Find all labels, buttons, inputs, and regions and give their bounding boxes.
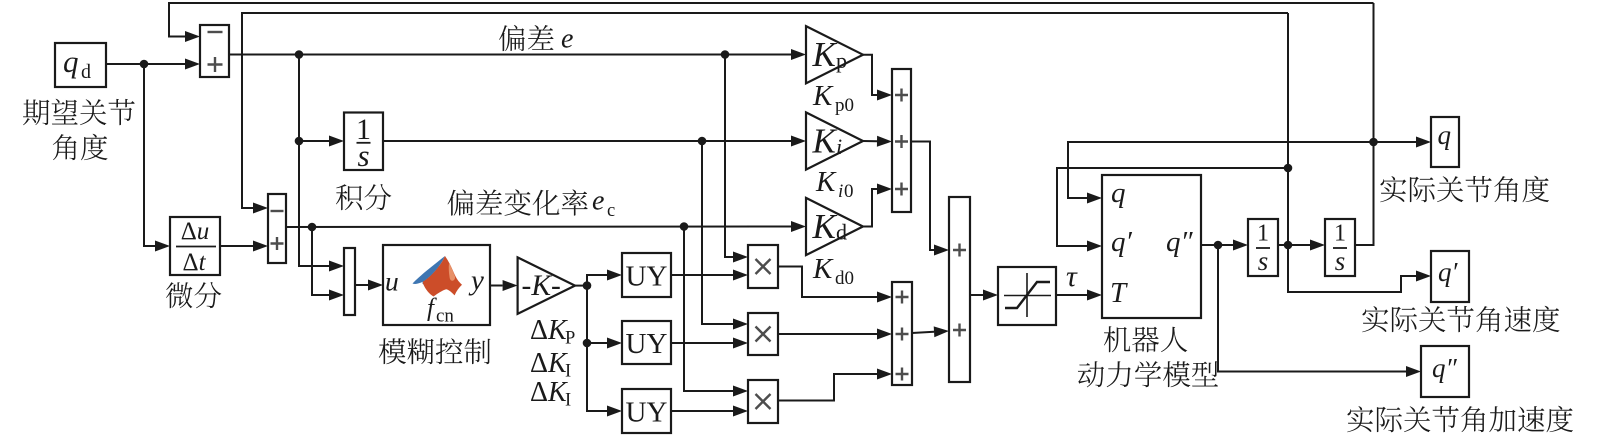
wire fuzzy to gain [490,285,503,287]
svg-text:K: K [812,80,834,112]
wire Kd to sum3 [863,189,877,227]
label actual joint acceleration [1347,406,1573,433]
svg-text:K: K [812,207,838,246]
wire q-prime feedback top line to sum2 minus [242,13,1288,208]
wire integral line to Ki [380,140,791,142]
svg-text:s: s [1335,246,1346,276]
node ec tap [680,222,689,231]
gain block Kp [806,26,863,83]
label error rate ec [448,189,588,215]
product block x3 [748,380,778,423]
svg-text:Δu: Δu [181,218,210,245]
svg-text:ΔK: ΔK [530,377,568,408]
product block x1 [748,245,778,288]
wire UY1 to product1 [671,274,733,276]
node integral tap [698,137,707,146]
node q-dbldot [1214,241,1223,250]
svg-text:c: c [607,201,615,221]
block output q-dbldot [1421,346,1469,397]
wire product1 to sum4 [777,267,877,298]
block output q-prime [1431,251,1469,302]
block qd desired joint angle [55,43,106,87]
node qd branch [140,60,149,69]
wire UY2 to product2 [671,342,733,344]
wire qd branch to derivative block [144,64,155,246]
svg-text:cn: cn [436,306,454,327]
block robot dynamics model [1102,175,1201,318]
svg-text:s: s [1258,246,1269,276]
matlab logo highlight [449,264,455,281]
mux block [344,248,355,315]
node e to integrator/mux [295,50,304,59]
gain block Ki [806,112,863,169]
svg-text:0: 0 [844,181,854,202]
svg-text:q: q [1111,177,1126,209]
label actual joint angle [1380,176,1549,203]
sum block sum2 [268,194,286,263]
wire e tap to product1 [725,55,733,258]
svg-text:UY: UY [626,328,668,360]
wire UY3 to product3 [671,410,733,412]
svg-text:K: K [812,253,834,285]
block fuzzy controller fcn [383,245,490,325]
svg-text:q″: q″ [1166,226,1194,258]
svg-text:i: i [836,134,842,159]
wire q-prime vertical to output block [1288,13,1416,292]
svg-text:UY: UY [626,261,668,293]
node UY2 input [583,339,592,348]
wire q to output block [1374,141,1417,143]
label integral [336,184,391,210]
block UY3 selector [622,389,671,433]
svg-text:Δt: Δt [182,249,206,276]
wire product2 to sum4 [778,333,877,335]
node q feedback [1369,138,1378,147]
wire error e line to Kp [229,54,791,56]
wire product3 to sum4 [778,374,877,401]
svg-text:T: T [1110,277,1128,309]
svg-text:p: p [836,48,847,73]
label fuzzy control [379,338,491,364]
wire gain output [575,285,587,287]
wire Ki to sum3 [863,140,877,142]
sum block sum5 [949,197,970,382]
matlab logo blue wing [413,256,446,284]
svg-text:q: q [1438,120,1452,150]
label actual joint velocity [1362,306,1559,333]
wire mux to fuzzy controller [355,284,368,286]
node integrator input [295,137,304,146]
wire sum3 to sum5 [911,142,934,251]
wire e branch to integrator [299,140,329,142]
svg-text:d0: d0 [835,268,854,289]
matlab logo orange membrane [423,256,462,297]
label robot line2 [1078,361,1218,387]
svg-text:τ: τ [1066,260,1078,293]
wire integrator A to integrator B [1277,244,1310,246]
svg-text:d: d [81,61,91,83]
wire ec line to Kd [286,226,791,228]
svg-text:K: K [815,166,837,198]
label error e [499,25,554,51]
gain block -K- [518,257,575,313]
gain block Kd [806,198,863,255]
svg-text:e: e [561,24,573,55]
block saturation [998,267,1056,325]
svg-text:K: K [812,122,838,161]
block UY2 selector [622,321,671,364]
sum block sum4 [892,282,912,385]
node ec to mux [308,223,317,232]
wire to UY1 [587,275,607,286]
wire q-prime feedback into robot model [1057,168,1288,246]
node q-prime tap [1284,241,1293,250]
matlab logo blue shadow [423,266,441,284]
svg-text:p0: p0 [835,95,854,116]
svg-text:-K-: -K- [522,270,561,302]
svg-text:q″: q″ [1432,353,1458,383]
wire qd to sum1 plus [106,63,185,65]
label derivative [166,282,221,308]
product block x2 [748,313,778,355]
svg-text:y: y [468,265,484,297]
block integrator A 1/s [1248,219,1278,276]
block integrator 1/s [344,113,383,171]
label desired joint angle line1 [23,99,135,125]
wire q-dbldot to integrator A [1201,244,1233,246]
wire ec tap to product3 [684,227,733,392]
wire e branch down to mux input1 [299,55,329,267]
svg-text:I: I [565,391,571,411]
svg-text:K: K [812,35,838,74]
svg-text:1: 1 [1334,221,1346,247]
svg-text:e: e [592,186,604,217]
node e tap [721,50,730,59]
svg-text:ΔK: ΔK [530,348,568,379]
wire q-dbldot to output block [1218,245,1406,372]
wire to UY2 [587,286,607,343]
svg-text:1: 1 [1257,221,1269,247]
block output q [1431,117,1459,167]
sum block sum1 [200,25,229,77]
node q-prime feedback [1284,164,1293,173]
block integrator B 1/s [1325,219,1355,276]
wire q feedback into robot model [1068,142,1374,198]
wire integrator B up to q feedback [1355,3,1374,245]
svg-text:u: u [385,266,399,297]
svg-text:q: q [63,44,79,79]
block derivative du/dt [170,217,220,275]
wire to UY3 [587,343,607,411]
wire sum5 to saturation [970,294,983,296]
wire Kp to sum3 [863,55,877,95]
label desired joint angle line2 [53,134,108,161]
svg-text:ΔK: ΔK [530,315,568,346]
sum block sum3 [892,69,911,212]
svg-text:UY: UY [626,397,668,429]
svg-text:s: s [357,138,369,173]
node gain output [583,281,592,290]
wire ec branch to mux input2 [312,227,329,295]
block UY1 selector [622,253,671,297]
svg-text:i: i [838,181,843,202]
wire integral tap to product2 [702,141,733,324]
wire sum4 to sum5 [912,332,934,333]
wire q feedback top line to sum1 minus [169,3,1374,37]
wire tau to robot model [1056,294,1087,296]
label robot line1 [1104,326,1187,352]
svg-text:q′: q′ [1438,257,1459,287]
svg-text:P: P [565,329,575,349]
svg-text:q′: q′ [1111,226,1133,258]
wire derivative to sum2 plus [220,245,253,247]
svg-text:d: d [836,220,847,245]
